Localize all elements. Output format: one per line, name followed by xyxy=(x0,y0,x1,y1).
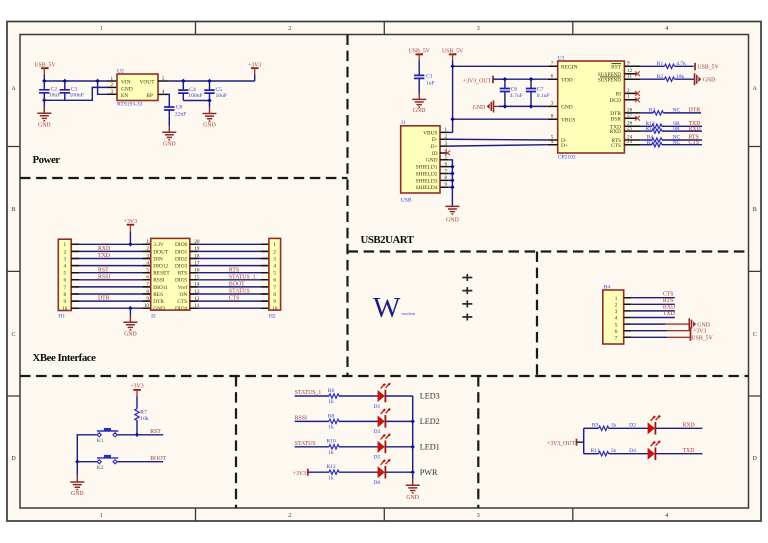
resistor R10 1k xyxy=(326,439,339,456)
svg-text:4: 4 xyxy=(665,513,668,519)
dashed partition: vertical x=517 xyxy=(536,252,538,377)
capacitor C5 xyxy=(204,81,227,101)
svg-text:1uF: 1uF xyxy=(426,80,435,86)
wire K2 left xyxy=(77,461,97,463)
svg-text:DCD: DCD xyxy=(610,98,621,104)
svg-text:8: 8 xyxy=(64,292,67,298)
svg-text:6: 6 xyxy=(615,329,618,335)
svg-text:D-: D- xyxy=(432,137,438,143)
svg-text:3: 3 xyxy=(146,253,149,259)
svg-text:9: 9 xyxy=(273,299,276,305)
svg-text:GND: GND xyxy=(153,306,165,312)
svg-text:REGIN: REGIN xyxy=(561,64,578,70)
svg-text:D4: D4 xyxy=(629,448,636,454)
svg-text:7: 7 xyxy=(273,285,276,291)
svg-text:EN: EN xyxy=(121,93,128,99)
power bar flag USB_5V xyxy=(695,63,720,71)
wire TXD xyxy=(632,317,675,319)
pin stubs H1 right and J2 left xyxy=(71,244,151,308)
wire row TXD xyxy=(584,453,599,455)
svg-text:RXD: RXD xyxy=(98,246,110,252)
dashed partition: usb2uart bottom xyxy=(348,250,749,252)
ground power GND (C1) xyxy=(412,99,426,114)
cross marker 1 xyxy=(462,274,472,281)
svg-text:CTS: CTS xyxy=(689,140,700,146)
svg-text:H1: H1 xyxy=(58,314,65,320)
resistor R3 NC DTR xyxy=(640,107,701,115)
power bar flag USB_5V (H4) xyxy=(691,334,714,342)
column ticks top xyxy=(196,22,573,35)
svg-text:2: 2 xyxy=(111,82,114,88)
wire D6 to bus xyxy=(385,471,412,473)
ground power GND (XBee) xyxy=(123,322,137,337)
svg-text:RTS: RTS xyxy=(178,271,188,277)
svg-text:1k: 1k xyxy=(328,450,334,456)
svg-text:A: A xyxy=(11,86,16,92)
resistor R12 1k xyxy=(326,464,339,481)
svg-text:USB: USB xyxy=(401,198,412,204)
net label +3V3_OUT flag xyxy=(463,76,505,85)
svg-text:ON: ON xyxy=(180,292,188,298)
svg-text:3: 3 xyxy=(477,513,480,519)
wire R7 to RST xyxy=(136,421,138,435)
svg-text:D6: D6 xyxy=(374,480,381,486)
node junction shield3 xyxy=(450,178,454,182)
resistor R9 1k xyxy=(592,422,617,430)
wire to VBUS xyxy=(453,118,548,120)
svg-text:GND: GND xyxy=(71,491,84,497)
svg-text:DOUT: DOUT xyxy=(153,249,169,255)
dashed partition: vertical x=236 xyxy=(235,376,237,508)
net label +3V3_OUT flag (rxtx) xyxy=(547,439,584,447)
svg-text:4: 4 xyxy=(146,260,149,266)
svg-text:1: 1 xyxy=(100,26,103,32)
svg-text:4.7k: 4.7k xyxy=(676,61,686,67)
wire R12 to D6 xyxy=(339,471,378,473)
svg-text:DTR: DTR xyxy=(98,296,110,302)
svg-text:GND: GND xyxy=(124,331,137,337)
ground power GND (buttons) xyxy=(70,482,84,497)
node junction C6 top xyxy=(503,77,507,81)
wire gnd drop right xyxy=(209,101,211,108)
wire C4 C5 bottom bus xyxy=(183,100,209,102)
node junction EN xyxy=(95,79,99,83)
pin stubs U2 left xyxy=(107,81,117,94)
svg-text:R10: R10 xyxy=(326,439,336,445)
svg-text:2: 2 xyxy=(146,246,149,252)
svg-text:GND: GND xyxy=(473,105,486,111)
wire gnd drop (buttons) xyxy=(76,462,78,475)
svg-text:C: C xyxy=(753,332,757,338)
node junction +3V3 row1 xyxy=(128,242,132,246)
resistor R13 0R TXD xyxy=(640,121,702,129)
connector J1 USB xyxy=(401,120,448,203)
LED D2 xyxy=(629,415,661,435)
svg-text:NC: NC xyxy=(673,107,681,113)
op-amp U2 regulator RT9193-33 xyxy=(111,68,165,107)
svg-text:H2: H2 xyxy=(269,314,276,320)
svg-text:LED2: LED2 xyxy=(420,417,440,426)
svg-text:4.7uF: 4.7uF xyxy=(510,93,523,99)
svg-text:R12: R12 xyxy=(326,464,336,470)
svg-text:modem: modem xyxy=(402,311,416,316)
svg-text:R11: R11 xyxy=(590,448,599,454)
svg-text:RESET: RESET xyxy=(153,271,170,277)
svg-text:5: 5 xyxy=(64,271,67,277)
column ticks bottom xyxy=(196,508,573,521)
svg-text:3: 3 xyxy=(273,256,276,262)
svg-text:RST: RST xyxy=(150,429,161,435)
svg-text:Vref: Vref xyxy=(178,284,188,291)
svg-text:1: 1 xyxy=(64,242,67,248)
wire D5 to bus xyxy=(385,446,412,448)
resistor R2 10k xyxy=(640,74,695,82)
svg-text:XBee Interface: XBee Interface xyxy=(33,352,97,364)
wire gnd drop (led) xyxy=(412,472,414,478)
wire split bus xyxy=(583,428,585,453)
resistor R14 0R RXD xyxy=(640,126,702,133)
power flag USB_5V (U1) xyxy=(442,49,464,61)
power flag +3V3 (XBee) xyxy=(124,219,137,244)
svg-text:DIO3: DIO3 xyxy=(175,264,188,270)
node junction shield1 xyxy=(450,165,454,169)
svg-text:2: 2 xyxy=(64,249,67,255)
wire USB_5V vertical bus xyxy=(452,61,454,133)
svg-text:VOUT: VOUT xyxy=(140,80,156,86)
svg-text:U2: U2 xyxy=(117,68,124,74)
svg-text:6: 6 xyxy=(146,275,149,281)
node junction C2 xyxy=(42,79,46,83)
resistor R4 NC RTS xyxy=(640,135,702,143)
node junction C5 gnd xyxy=(207,98,211,102)
row ticks left xyxy=(7,147,20,397)
svg-text:3: 3 xyxy=(477,26,480,32)
resistor R8 1k xyxy=(328,413,339,430)
svg-text:RST: RST xyxy=(611,64,622,70)
svg-text:RTS: RTS xyxy=(663,298,673,304)
node junction K2 row xyxy=(75,460,79,464)
svg-text:CTS: CTS xyxy=(611,143,621,149)
svg-text:4: 4 xyxy=(64,264,67,270)
wire VDD bus xyxy=(505,78,548,80)
wire GND row xyxy=(632,323,665,325)
node junction gnd drop xyxy=(42,98,46,102)
node junction GND row10 xyxy=(128,306,132,310)
svg-text:R3: R3 xyxy=(649,107,656,113)
node junction RST xyxy=(135,433,139,437)
wire BOOT xyxy=(118,461,164,463)
svg-text:+3V3: +3V3 xyxy=(293,471,306,477)
wire VOUT bus xyxy=(168,80,255,82)
svg-text:+3V3: +3V3 xyxy=(130,384,143,390)
ground GND right-facing (R2) xyxy=(695,73,716,85)
svg-text:2: 2 xyxy=(273,249,276,255)
wire BP to C8 xyxy=(168,94,169,106)
node junction C5 xyxy=(207,79,211,83)
svg-text:GND: GND xyxy=(38,122,51,128)
svg-text:D+: D+ xyxy=(431,144,438,150)
svg-text:Power: Power xyxy=(33,154,61,166)
power flag +3V3 (buttons) xyxy=(130,384,143,409)
svg-text:DIO0: DIO0 xyxy=(175,242,188,248)
svg-text:D+: D+ xyxy=(561,143,568,149)
svg-text:10uF: 10uF xyxy=(216,93,228,99)
node junction shield4 xyxy=(450,185,454,189)
svg-text:TXD: TXD xyxy=(98,253,110,259)
svg-text:SHIELD3: SHIELD3 xyxy=(416,178,438,184)
svg-text:D3: D3 xyxy=(374,429,381,435)
ground GND right-facing (H4) xyxy=(689,318,710,330)
LED D3 xyxy=(374,408,391,435)
svg-text:CP2102: CP2102 xyxy=(558,154,576,160)
svg-text:D: D xyxy=(753,456,758,462)
wire EN tie xyxy=(98,81,107,94)
svg-text:1k: 1k xyxy=(611,422,617,428)
svg-text:7: 7 xyxy=(64,285,67,291)
svg-text:1: 1 xyxy=(111,76,114,82)
svg-text:C4: C4 xyxy=(189,87,196,93)
svg-text:RXD: RXD xyxy=(663,305,675,311)
svg-text:J2: J2 xyxy=(151,314,156,320)
node junction C6 bottom xyxy=(503,104,507,108)
svg-text:1k: 1k xyxy=(328,399,334,405)
svg-text:6: 6 xyxy=(64,278,67,284)
svg-text:C1: C1 xyxy=(426,74,433,80)
push button K1 xyxy=(97,428,119,444)
svg-text:R5: R5 xyxy=(647,140,654,146)
svg-text:0.1uF: 0.1uF xyxy=(537,93,550,99)
svg-text:1: 1 xyxy=(100,513,103,519)
svg-text:PWR: PWR xyxy=(420,468,438,477)
header H1 xyxy=(58,239,71,319)
svg-text:VBUS: VBUS xyxy=(423,130,437,136)
svg-text:1: 1 xyxy=(273,242,276,248)
svg-text:STATUS: STATUS xyxy=(295,441,316,447)
node junction C7 top xyxy=(529,77,533,81)
svg-text:4: 4 xyxy=(273,264,276,270)
svg-text:2: 2 xyxy=(288,513,291,519)
ground power GND C8 xyxy=(162,132,176,147)
svg-text:R9: R9 xyxy=(592,422,599,428)
svg-text:J1: J1 xyxy=(401,120,406,126)
svg-text:STATUS_1: STATUS_1 xyxy=(229,274,256,280)
svg-text:+3V3_OUT: +3V3_OUT xyxy=(463,79,492,85)
svg-text:LED3: LED3 xyxy=(420,392,440,401)
svg-text:CTS: CTS xyxy=(229,296,240,302)
no connect X pin12 xyxy=(635,71,640,76)
svg-text:RSSI: RSSI xyxy=(153,278,165,284)
wire shield gnd bus xyxy=(448,160,452,206)
power flag +3V3 (led) xyxy=(293,469,308,477)
pin stubs U1 right connected xyxy=(624,66,640,144)
svg-text:8: 8 xyxy=(146,289,149,295)
wire D1 to bus xyxy=(385,395,412,397)
svg-text:8: 8 xyxy=(273,292,276,298)
wire +3V3 row xyxy=(632,330,667,332)
svg-text:RSSI: RSSI xyxy=(295,416,307,422)
wire CTS xyxy=(632,297,675,299)
dashed partition: vertical x=347.5 full xyxy=(346,35,348,377)
wire R6 to D1 xyxy=(339,395,378,397)
wire row RXD xyxy=(584,427,599,429)
capacitor C8 xyxy=(164,104,186,131)
svg-text:DIO1: DIO1 xyxy=(175,249,188,255)
no connect X pin1 xyxy=(635,97,640,102)
svg-text:100nF: 100nF xyxy=(70,93,84,99)
connector J2 XBee socket xyxy=(144,238,200,319)
svg-text:DIO11: DIO11 xyxy=(153,285,168,291)
svg-text:RT9193-33: RT9193-33 xyxy=(117,102,143,108)
svg-text:STATUS_1: STATUS_1 xyxy=(295,390,322,396)
svg-text:7: 7 xyxy=(146,282,149,288)
svg-text:BOOT: BOOT xyxy=(229,282,245,288)
dashed partition: vertical x=437 xyxy=(477,376,479,508)
pin stubs U1 left xyxy=(548,66,558,144)
header H4 xyxy=(603,284,624,344)
svg-text:0R: 0R xyxy=(673,126,680,132)
svg-text:GND: GND xyxy=(163,141,176,147)
svg-text:VDD: VDD xyxy=(561,77,573,83)
svg-text:ID: ID xyxy=(432,151,438,157)
resistor R5 NC CTS xyxy=(640,140,702,147)
svg-text:1k: 1k xyxy=(611,448,617,454)
svg-text:VIN: VIN xyxy=(121,80,131,86)
svg-text:RTS: RTS xyxy=(229,267,239,273)
svg-text:D2: D2 xyxy=(629,422,636,428)
svg-text:10k: 10k xyxy=(140,416,149,422)
node junction PWR xyxy=(411,470,415,474)
svg-text:DIN: DIN xyxy=(153,256,163,262)
svg-text:CTS: CTS xyxy=(177,299,187,305)
LED D4 xyxy=(629,440,661,460)
ground power GND xyxy=(37,113,51,128)
svg-text:TXD: TXD xyxy=(683,448,695,454)
svg-text:R6: R6 xyxy=(328,388,335,394)
svg-text:C7: C7 xyxy=(537,87,544,93)
power flag USB_5V xyxy=(34,62,56,81)
power flag USB_5V (C1) xyxy=(409,49,431,75)
node junction C7 bottom xyxy=(529,104,533,108)
svg-text:4: 4 xyxy=(615,316,618,322)
node junction C3 xyxy=(63,79,67,83)
cross marker 4 xyxy=(462,314,472,321)
svg-text:GND: GND xyxy=(121,86,133,92)
overline SUSPEND pin11 xyxy=(600,76,621,78)
LED D6 xyxy=(374,459,391,486)
svg-text:R1: R1 xyxy=(657,61,664,67)
wire GND bus C6 C7 xyxy=(494,105,499,107)
svg-text:DIO12: DIO12 xyxy=(153,264,168,270)
svg-text:DSR: DSR xyxy=(611,116,622,122)
svg-text:RXD: RXD xyxy=(683,423,695,429)
svg-text:DIO4: DIO4 xyxy=(175,306,188,312)
svg-text:D: D xyxy=(11,456,16,462)
svg-text:+3V3_OUT: +3V3_OUT xyxy=(547,441,576,447)
svg-text:C5: C5 xyxy=(216,87,223,93)
svg-text:DIO2: DIO2 xyxy=(175,256,188,262)
svg-text:1k: 1k xyxy=(328,425,334,431)
wire input bus xyxy=(44,80,107,82)
svg-text:3: 3 xyxy=(64,256,67,262)
svg-text:1k: 1k xyxy=(328,475,334,481)
IC U1 CP2102 xyxy=(551,55,633,160)
wires H1 to J2 xyxy=(71,244,151,308)
svg-text:RI: RI xyxy=(616,92,622,98)
no connect X pin27 xyxy=(635,116,640,121)
resistor R1 4.7k xyxy=(640,61,694,69)
node junction VBUS xyxy=(450,117,454,121)
svg-text:R8: R8 xyxy=(328,413,335,419)
svg-text:SHIELD4: SHIELD4 xyxy=(416,185,438,191)
svg-text:D5: D5 xyxy=(374,455,381,461)
capacitor C2 xyxy=(39,81,60,100)
svg-text:RXD: RXD xyxy=(610,129,621,135)
wire R9 to D2 xyxy=(609,427,648,429)
wire R11 to D4 xyxy=(609,453,648,455)
svg-text:USB_5V: USB_5V xyxy=(698,65,720,71)
wire gnd drop xyxy=(43,100,45,112)
svg-text:GND: GND xyxy=(413,108,426,114)
svg-text:7: 7 xyxy=(615,336,618,342)
ground power GND right xyxy=(203,114,217,129)
svg-text:B: B xyxy=(11,207,15,213)
svg-text:B: B xyxy=(753,207,757,213)
dashed partition: bottom band top xyxy=(20,375,749,377)
node junction C4 xyxy=(181,79,185,83)
svg-text:RXD: RXD xyxy=(689,126,701,132)
svg-text:3: 3 xyxy=(615,309,618,315)
svg-text:BP: BP xyxy=(146,93,153,99)
svg-text:+3V3: +3V3 xyxy=(693,329,706,335)
svg-text:10: 10 xyxy=(272,306,278,312)
svg-text:10: 10 xyxy=(144,303,150,309)
resistor R6 1k xyxy=(328,388,339,405)
power bar flag +3V3 (H4) xyxy=(691,327,707,334)
row ticks right xyxy=(749,147,762,397)
svg-text:2: 2 xyxy=(615,303,618,309)
svg-text:1: 1 xyxy=(146,239,149,245)
node junction shield2 xyxy=(450,171,454,175)
wire row LED1 xyxy=(295,446,329,448)
svg-text:W: W xyxy=(373,292,401,324)
overline RST xyxy=(612,63,622,65)
svg-text:DTR: DTR xyxy=(689,108,701,114)
svg-text:K1: K1 xyxy=(97,438,104,444)
wire RXD xyxy=(632,310,675,312)
svg-text:3: 3 xyxy=(111,89,114,95)
ground power GND (led) xyxy=(406,485,420,501)
pin stubs U2 right xyxy=(158,81,168,94)
ground power GND (J1) xyxy=(445,206,459,223)
svg-text:2: 2 xyxy=(288,26,291,32)
node junction REGIN xyxy=(450,64,454,68)
svg-text:USB2UART: USB2UART xyxy=(361,234,415,246)
capacitor C3 xyxy=(60,81,84,100)
wire K1 to bus xyxy=(77,435,97,462)
wire row LED2 xyxy=(295,420,329,422)
svg-text:3.3V: 3.3V xyxy=(153,242,164,248)
svg-text:GND: GND xyxy=(446,217,459,223)
svg-text:U1: U1 xyxy=(558,55,565,61)
svg-text:9: 9 xyxy=(146,296,149,302)
svg-text:10k: 10k xyxy=(676,74,685,80)
power flag +3V3 xyxy=(248,62,261,81)
svg-text:STATUS: STATUS xyxy=(229,289,250,295)
wire to J1 VBUS xyxy=(448,131,453,133)
wire R10 to D5 xyxy=(339,446,378,448)
svg-text:22nF: 22nF xyxy=(175,111,187,117)
svg-text:GND: GND xyxy=(561,105,573,111)
